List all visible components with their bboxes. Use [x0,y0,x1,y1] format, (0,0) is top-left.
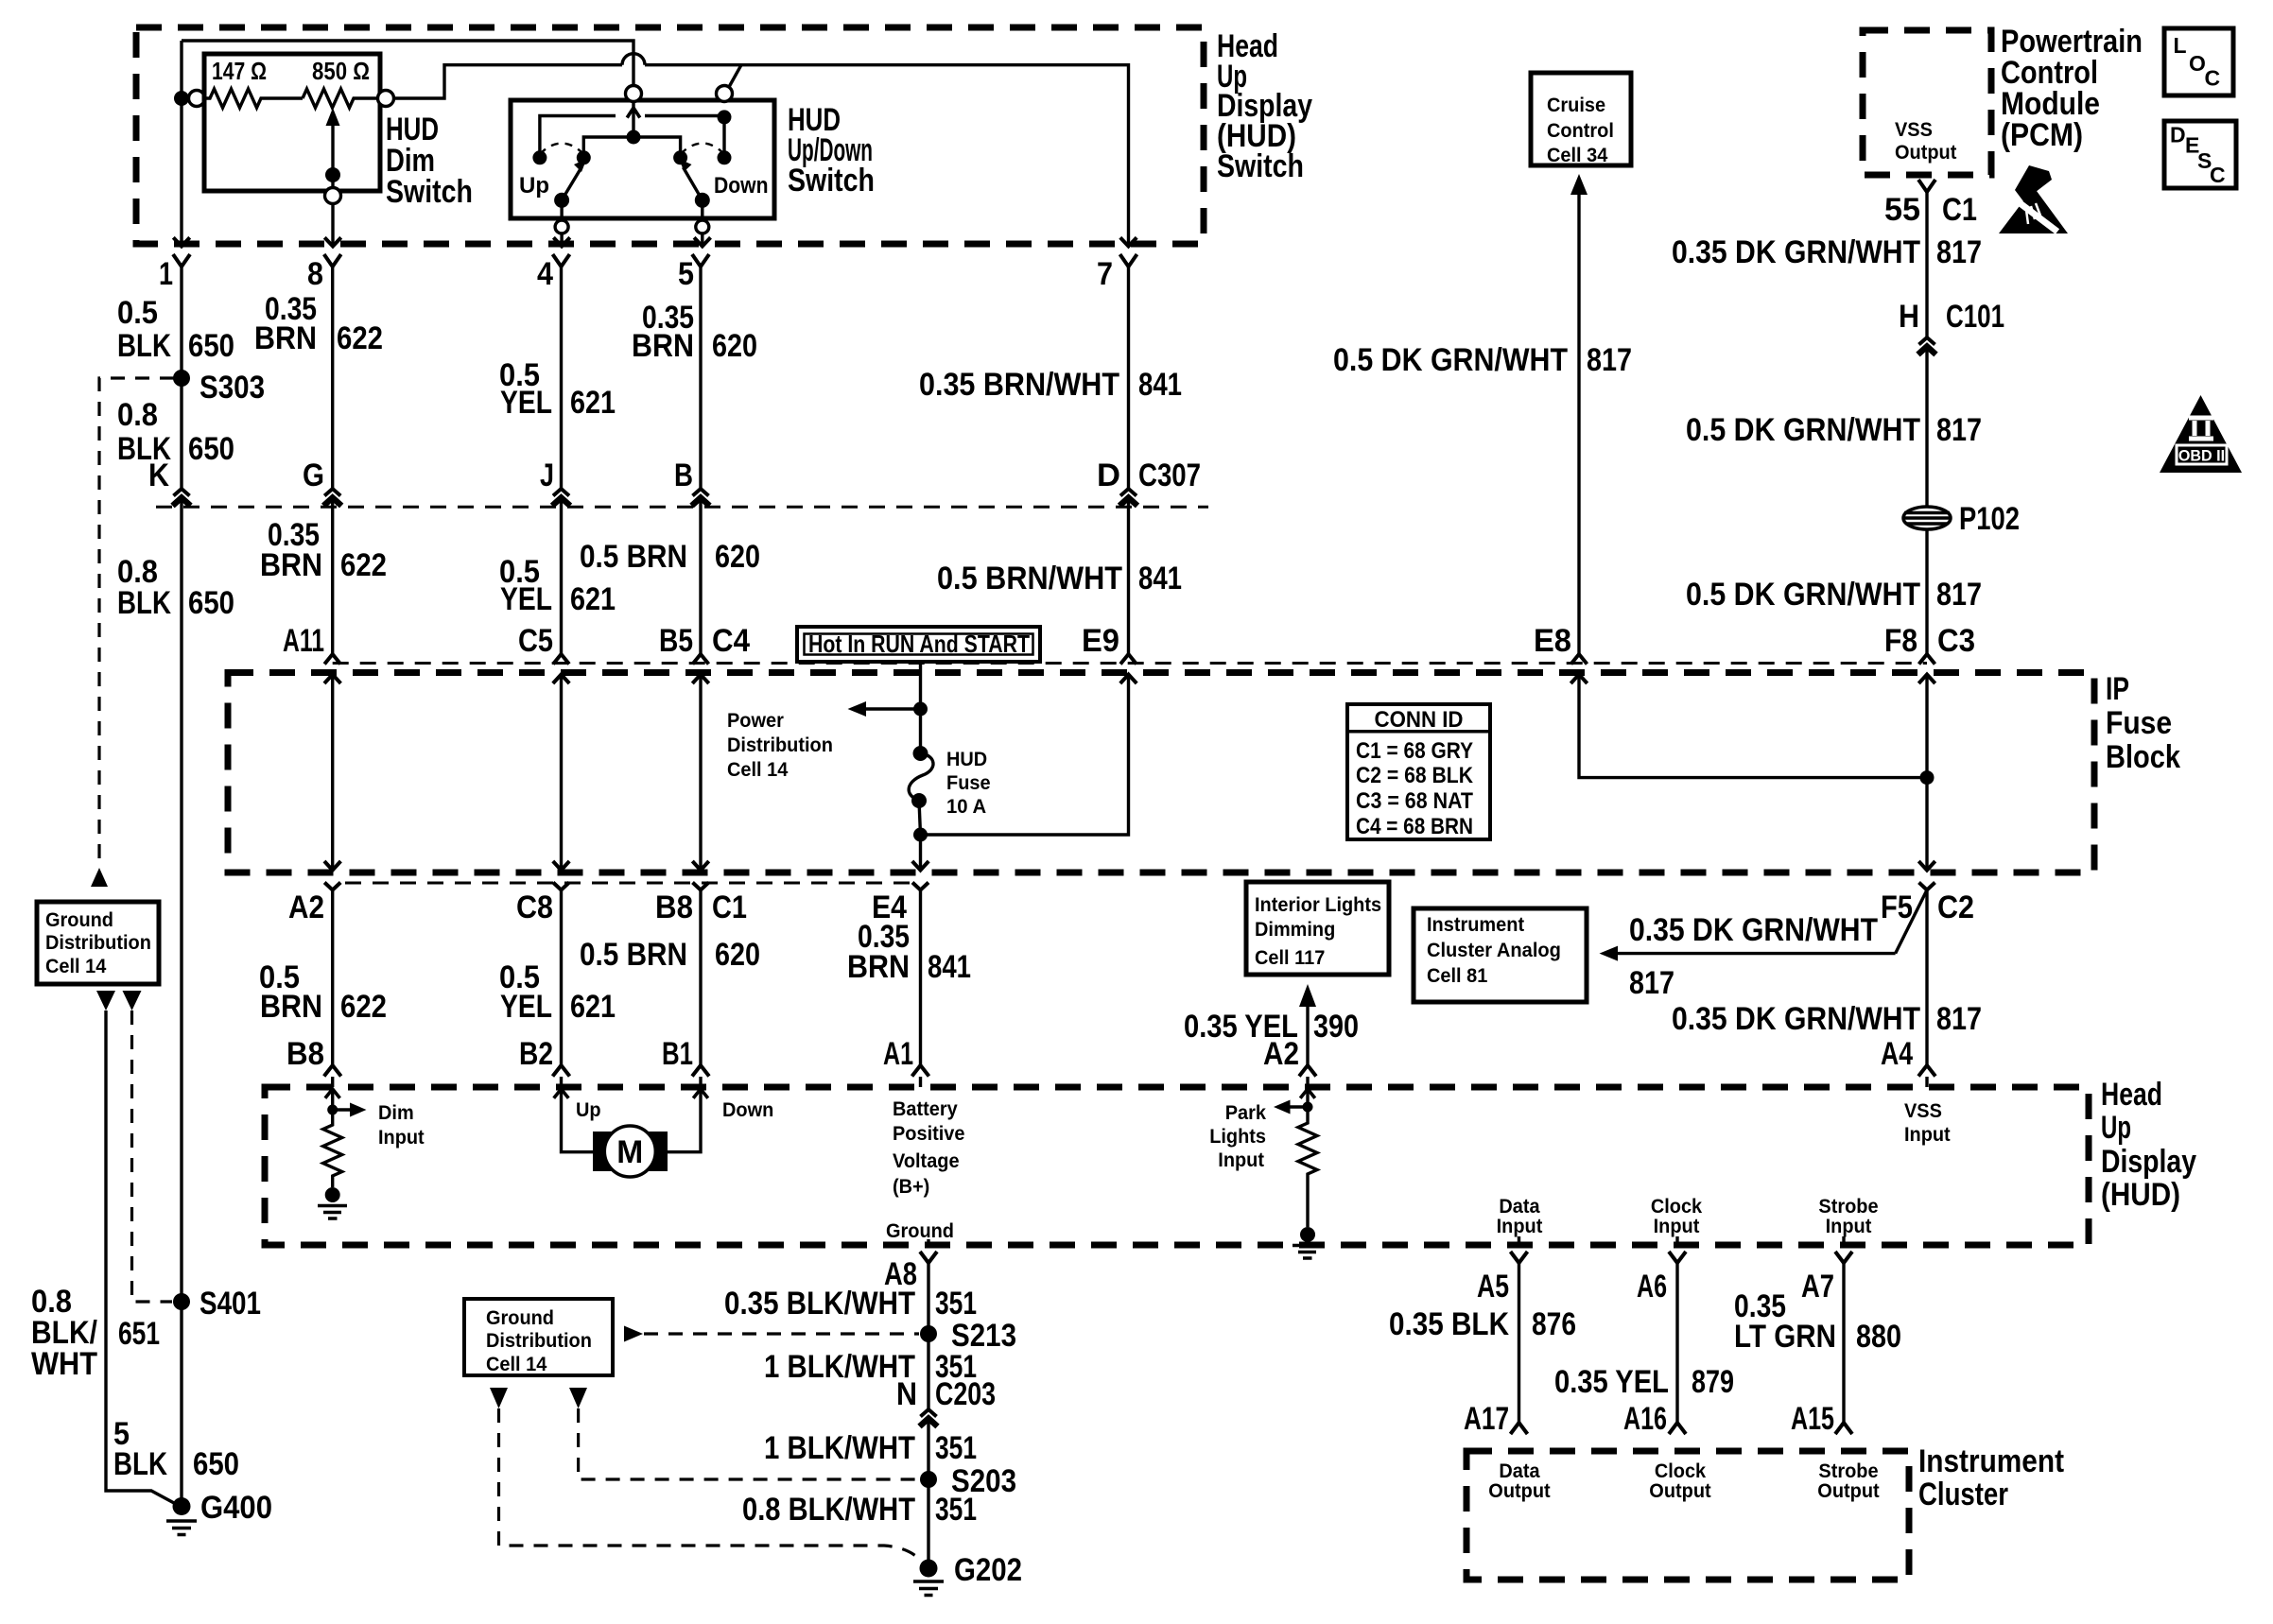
motor M [593,1126,668,1177]
svg-text:622: 622 [337,320,383,356]
svg-text:Cluster Analog: Cluster Analog [1427,940,1561,961]
pin A1 breakout [912,1065,929,1077]
switch arm down [684,167,703,200]
terminal open circle wiper [325,188,341,204]
svg-text:0.35 BLK/WHT: 0.35 BLK/WHT [724,1286,915,1322]
park lights: junction dot [1303,1102,1313,1113]
pin A8 breakout [920,1252,937,1263]
connector thin dashed line IP bottom [345,882,910,885]
svg-text:Fuse: Fuse [2106,705,2172,741]
arrow down left of box [96,991,115,1011]
pin A5 breakout [1511,1252,1528,1263]
label IP Fuse Block [2106,671,2180,775]
label Battery Positive Voltage B+ [893,1098,965,1198]
wire B1 stub [699,1077,702,1087]
svg-text:Display: Display [2101,1144,2196,1180]
svg-text:879: 879 [1692,1364,1734,1400]
pin 8 breakout [324,254,341,267]
wire 621 pin4 to C307 [560,267,563,489]
Instrument Cluster Analog Cell 81 box [1414,908,1587,1002]
svg-text:Switch: Switch [386,174,473,210]
svg-text:817: 817 [1936,1001,1982,1037]
wire 651 solid [106,1011,181,1507]
Cruise Control Cell 34 box [1531,73,1631,165]
wire 650 C307 to S401 [180,498,182,1303]
svg-text:C3: C3 [1937,623,1975,659]
resistor 147 ohm [205,89,304,108]
svg-text:351: 351 [935,1430,977,1466]
svg-text:55: 55 [1884,192,1920,228]
svg-text:0.35 BLK: 0.35 BLK [1389,1306,1509,1342]
wire fuse feed [919,662,922,752]
svg-text:M: M [616,1134,643,1170]
ground dim input [325,1187,340,1202]
ESD symbol [1999,165,2068,233]
pin A11 breakout [324,654,340,665]
wire 817 P102 to F8 [1925,529,1928,654]
pin A2 breakout [324,883,340,890]
pin E4 breakout [912,883,928,890]
label Clock Output [1649,1460,1710,1502]
wire 841 pin7 to C307 [1127,267,1130,489]
node fuse bottom dot [911,793,927,808]
svg-text:650: 650 [188,328,234,364]
svg-text:0.5 BRN: 0.5 BRN [580,539,687,575]
wire dot to circle [182,96,189,99]
Ground Distribution Cell 14 box left [37,902,159,984]
svg-text:817: 817 [1629,965,1674,1001]
svg-text:C5: C5 [518,623,553,659]
arrow wire D IP bottom [692,861,708,871]
dashed wire to S203 [579,1408,918,1479]
label 0.5 DK GRN/WHT 817 lower [1686,577,1982,613]
svg-text:0.5 DK GRN/WHT: 0.5 DK GRN/WHT [1686,412,1920,448]
label 1 BLK/WHT 351 lower [764,1430,977,1466]
svg-text:Cell 34: Cell 34 [1547,145,1608,166]
svg-text:G202: G202 [954,1552,1022,1588]
wire A8 stub [927,1239,929,1245]
svg-text:A15: A15 [1791,1401,1834,1437]
HUD Up/Down Switch box [511,100,774,218]
wire 351 A8 to S213 [927,1263,929,1409]
wire diagonal to updown switch [729,65,741,87]
svg-text:817: 817 [1936,577,1982,613]
node E9 branch dot [913,828,928,842]
CONN ID box [1347,704,1490,839]
svg-text:B5: B5 [659,623,693,659]
svg-text:A2: A2 [288,890,324,925]
node contact down-left [673,150,687,164]
wire pin4 to edge [560,234,563,247]
label 0.35 BLK/WHT 351 [724,1286,977,1322]
svg-text:Input: Input [1497,1216,1543,1237]
arrow down below box right [569,1388,587,1408]
pin A4 breakout [1918,1065,1935,1077]
arrow wire B IP bottom [324,861,340,871]
label 0.35 LT GRN 880 [1734,1288,1901,1355]
switch arm up [562,167,581,200]
label 0.8 BLK 650 [117,397,234,467]
svg-text:WHT: WHT [31,1346,97,1382]
node F8 E8 junction [1920,770,1935,785]
label 0.35 BLK 876 [1389,1306,1576,1342]
svg-text:B2: B2 [519,1036,553,1072]
svg-text:0.35 DK GRN/WHT: 0.35 DK GRN/WHT [1672,234,1920,270]
wire wiper to edge [331,202,334,247]
svg-text:0.5 BRN: 0.5 BRN [580,937,687,973]
svg-text:390: 390 [1313,1009,1359,1045]
label 0.35 YEL 879 [1554,1364,1734,1400]
label 0.8 BLK/WHT 651 [31,1284,160,1382]
HUD switch dashed box [136,27,1204,244]
LOC box [2164,28,2233,95]
wire data stub [1518,1236,1520,1245]
svg-text:650: 650 [188,431,234,467]
svg-text:Output: Output [1817,1480,1879,1502]
svg-text:1 BLK/WHT: 1 BLK/WHT [764,1349,915,1385]
svg-text:E9: E9 [1082,623,1119,659]
svg-text:F8: F8 [1884,623,1917,659]
node S203 [920,1471,937,1488]
wire common up down [560,200,563,219]
node wiper dot [325,167,340,182]
svg-text:Up: Up [576,1099,601,1121]
svg-text:Ground: Ground [486,1307,554,1329]
ground G400 [173,1497,191,1515]
label 0.35 BRN/WHT 841 [919,367,1182,403]
label Data Output [1488,1460,1550,1502]
svg-text:Hot In RUN And START: Hot In RUN And START [808,630,1030,658]
label 0.8 BLK 650 below C307 [117,554,234,621]
label VSS Output [1895,119,1956,164]
svg-text:351: 351 [935,1286,977,1322]
svg-text:0.35 DK GRN/WHT: 0.35 DK GRN/WHT [1672,1001,1920,1037]
wire wiper down [331,175,334,188]
svg-text:Fuse: Fuse [946,772,991,794]
wire corner to pin7 [741,65,1129,247]
svg-text:OBD II: OBD II [2178,447,2225,465]
svg-text:817: 817 [1587,342,1632,378]
svg-text:651: 651 [118,1316,160,1352]
wire A2 stub [1306,1077,1309,1107]
svg-text:A16: A16 [1623,1401,1667,1437]
label 1 BLK/WHT 351 upper [764,1349,977,1385]
svg-text:BRN: BRN [632,328,694,364]
wire common down down [701,200,703,219]
svg-text:Cell 81: Cell 81 [1427,965,1488,987]
svg-text:C2: C2 [1937,890,1974,925]
label Clock Input [1651,1196,1703,1237]
connector C307 chevrons wire A [174,489,190,496]
svg-text:Voltage: Voltage [893,1150,960,1172]
svg-text:876: 876 [1532,1306,1576,1342]
label Instrument Cluster [1918,1443,2064,1512]
wire 621 IP to HUD [560,890,563,1066]
svg-text:C8: C8 [516,890,553,925]
svg-text:4: 4 [537,256,553,292]
svg-text:7: 7 [1097,256,1113,292]
pin 5 breakout [692,254,709,267]
wire pin1 vertical [180,41,182,247]
wire 622 inside IP [331,675,334,871]
wire 880 [1842,1263,1845,1423]
pin F8 breakout [1919,654,1935,665]
label HUD Dim Switch [386,112,473,210]
wire cross bar [540,116,616,158]
arrow wire C IP bottom [553,861,569,871]
svg-text:HUD: HUD [946,749,987,770]
label 0.5 YEL 621 low [499,959,616,1025]
wire B8 stub [331,1077,334,1087]
svg-text:Down: Down [714,173,769,199]
connector C307 chevrons wire C [553,489,569,496]
connector C101 chevrons [1919,337,1935,345]
svg-text:Distribution: Distribution [45,932,151,954]
svg-text:BLK: BLK [117,585,171,621]
svg-text:Positive: Positive [893,1123,965,1145]
svg-text:620: 620 [715,539,760,575]
node contact up-right [577,150,591,164]
svg-text:C203: C203 [935,1376,996,1412]
svg-text:C4: C4 [712,623,750,659]
svg-text:817: 817 [1936,234,1982,270]
svg-text:0.8: 0.8 [117,397,158,433]
arrow pin7 down [1120,237,1136,246]
svg-text:Up: Up [519,173,549,199]
ground G202 [920,1560,938,1578]
DESC box [2164,121,2236,188]
wire 621 C307 to IP [560,498,563,655]
svg-text:Output: Output [1895,142,1956,164]
node power dist junction [913,702,928,717]
svg-text:J: J [540,458,554,493]
svg-text:5: 5 [678,256,694,292]
arrow pin1 down [173,237,189,246]
fuse HUD 10A symbol [909,753,933,801]
arrow wire E9 into IP [1120,675,1136,684]
svg-text:Input: Input [378,1127,425,1149]
node S213 [920,1325,937,1342]
wire 876 [1518,1263,1520,1423]
label 0.5 BRN 620 mid [580,539,760,575]
dashed wire to G202 [499,1408,923,1562]
svg-text:Block: Block [2106,739,2180,775]
svg-text:Instrument: Instrument [1918,1443,2064,1479]
wire arrow to instrument cluster analog [1617,952,1896,955]
motor: up arrow B1 [693,1089,708,1098]
wire 841 E4 to A1 [919,890,922,1066]
label 5 BLK 650 [113,1416,239,1482]
arrow wire B into IP [324,675,340,684]
pin 55 C1 breakout [1918,180,1935,192]
svg-text:0.35 DK GRN/WHT: 0.35 DK GRN/WHT [1629,912,1878,948]
label Head Up Display (HUD) [2101,1077,2196,1213]
pin C8 breakout [553,883,569,890]
wire 650 S401 to G400 [180,1302,182,1507]
IP Fuse Block dashed box [228,673,2094,873]
svg-text:A4: A4 [1881,1036,1913,1072]
svg-text:Strobe: Strobe [1818,1460,1878,1482]
arrow wire E4 IP bottom [912,861,928,871]
wire dim input branch [333,1108,351,1111]
arrow pin5 down [694,237,710,246]
svg-text:C2 = 68 BLK: C2 = 68 BLK [1356,763,1474,788]
node common down [695,193,710,208]
svg-text:Strobe: Strobe [1818,1196,1878,1218]
arrow wire F8 into IP [1918,675,1935,684]
svg-text:(PCM): (PCM) [2001,117,2083,153]
svg-text:YEL: YEL [500,989,552,1025]
label 0.35 BRN 841 low [847,919,971,985]
label 0.5 YEL 621 [499,357,616,421]
wire 650 pin1 to C307 [180,267,182,489]
svg-text:841: 841 [1138,367,1182,403]
svg-text:841: 841 [928,949,971,985]
svg-text:147 Ω: 147 Ω [212,57,267,85]
wire F8 inside IP [1925,675,1928,871]
pin A16 breakout [1669,1423,1686,1434]
label 0.35 DK GRN/WHT 817 A4 [1672,1001,1982,1037]
label 0.5 BRN 622 low [259,959,387,1025]
pin A6 breakout [1669,1252,1686,1263]
arrow into cruise box [1570,174,1588,195]
label HUD Up/Down Switch [788,102,875,199]
svg-text:A7: A7 [1801,1269,1834,1304]
resistor dim input [323,1110,342,1187]
label 0.5 DK GRN/WHT 817 cruise [1333,342,1632,378]
pin A7 breakout [1835,1252,1852,1263]
connector C307 chevrons wire D [693,489,709,496]
svg-text:C1 = 68 GRY: C1 = 68 GRY [1356,738,1473,764]
node junction dot left terminal [174,91,189,106]
svg-text:BRN: BRN [260,547,322,583]
svg-text:G400: G400 [200,1490,272,1526]
wire E8 inside IP [1579,675,1927,778]
svg-text:C307: C307 [1138,458,1201,493]
svg-text:A1: A1 [883,1036,913,1072]
svg-text:C: C [2210,163,2226,187]
svg-text:B: B [674,458,693,493]
arrow wire F5 IP bottom [1918,861,1935,871]
wire hop to corner [645,63,741,66]
svg-text:A5: A5 [1477,1269,1509,1304]
arrow center up [627,108,640,118]
wire diagonal to cell81 arrow [1896,890,1927,954]
svg-text:Power: Power [727,710,784,732]
svg-text:Input: Input [1826,1216,1872,1237]
svg-text:A11: A11 [283,623,324,659]
svg-text:0.5 DK GRN/WHT: 0.5 DK GRN/WHT [1333,342,1568,378]
node contact up-left [532,150,547,164]
svg-text:L: L [2174,33,2187,58]
PCM dashed box [1863,30,1991,175]
svg-text:621: 621 [570,581,616,617]
svg-text:Data: Data [1499,1460,1539,1482]
label VSS Input [1904,1100,1951,1146]
svg-text:Cell 14: Cell 14 [486,1354,547,1375]
label Park Lights Input [1209,1102,1266,1171]
svg-text:P102: P102 [1959,501,2020,537]
wire 879 [1675,1263,1678,1423]
svg-text:0.5 DK GRN/WHT: 0.5 DK GRN/WHT [1686,577,1920,613]
label 0.5 DK GRN/WHT 817 upper [1686,412,1982,448]
OBD II triangle [2160,395,2242,473]
terminal open circle pin4 [555,220,568,233]
wire 621 inside IP [560,675,563,871]
svg-text:1 BLK/WHT: 1 BLK/WHT [764,1430,915,1466]
wire 622 C307 to IP [331,498,334,655]
pin 4 breakout [553,254,570,267]
svg-text:0.8 BLK/WHT: 0.8 BLK/WHT [742,1492,915,1528]
label Strobe Output [1817,1460,1879,1502]
svg-text:Output: Output [1488,1480,1550,1502]
dashed arc down [681,144,724,155]
svg-text:N: N [896,1376,917,1412]
arrow into interior lights box [1299,984,1316,1007]
svg-text:O: O [2189,51,2206,76]
svg-text:Input: Input [1904,1124,1951,1146]
svg-text:Switch: Switch [788,163,875,199]
svg-text:A17: A17 [1464,1401,1509,1437]
svg-text:Cluster: Cluster [1918,1477,2008,1512]
wire dashed S303 to ground distribution [99,378,174,866]
svg-text:817: 817 [1936,412,1982,448]
svg-text:Instrument: Instrument [1427,914,1524,936]
arrow pin4 down [553,237,569,246]
svg-text:Dim: Dim [378,1102,414,1124]
pin 7 breakout [1120,254,1137,267]
terminal open circle updown left [626,86,642,102]
connector C307 dashed line [156,506,1208,509]
svg-text:0.5 BRN/WHT: 0.5 BRN/WHT [937,561,1122,596]
svg-text:VSS: VSS [1904,1100,1942,1122]
wire strobe stub [1842,1236,1845,1245]
svg-text:LT GRN: LT GRN [1734,1319,1836,1355]
label 0.5 BRN/WHT 841 mid [937,561,1182,596]
arrow wire D into IP [692,675,708,684]
svg-text:BLK: BLK [113,1446,167,1482]
svg-text:C4 = 68 BRN: C4 = 68 BRN [1356,814,1473,839]
svg-text:B8: B8 [655,890,693,925]
pin B8 breakout [324,1065,341,1077]
svg-text:Input: Input [1654,1216,1700,1237]
node fuse top dot [913,746,928,761]
svg-text:0.35 BRN/WHT: 0.35 BRN/WHT [919,367,1119,403]
terminal open circle left [189,91,205,107]
wire A1 stub [919,1077,922,1087]
svg-text:IP: IP [2106,671,2129,707]
pin B5 breakout [693,654,709,665]
connector C307 chevrons wire 841 [1120,489,1136,496]
node dim input dot [327,1105,338,1115]
label 0.5 BRN 620 low [580,937,760,973]
svg-text:YEL: YEL [500,581,552,617]
svg-text:622: 622 [340,547,387,583]
svg-text:BRN: BRN [847,949,910,985]
svg-text:Cruise: Cruise [1547,95,1605,116]
svg-text:Output: Output [1649,1480,1710,1502]
node S303 [173,370,190,387]
svg-text:D: D [1097,458,1120,493]
svg-text:S303: S303 [200,370,265,406]
svg-text:BRN: BRN [254,320,317,356]
svg-text:C: C [2205,66,2221,91]
svg-text:Cell 117: Cell 117 [1255,947,1325,969]
svg-text:622: 622 [340,989,387,1025]
Interior Lights Dimming Cell 117 box [1246,882,1389,975]
svg-text:Ground: Ground [886,1220,954,1242]
svg-text:Head: Head [2101,1077,2162,1113]
